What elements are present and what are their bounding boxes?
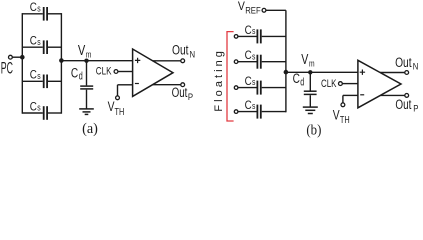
capacitor C_S row2 (b) [234, 50, 286, 69]
capacitor C_S row4 (b) [234, 100, 286, 119]
op-amp comparator U1 (a) [133, 49, 173, 96]
pin - (b) [360, 94, 364, 96]
svg-text:s: s [37, 71, 41, 81]
terminal CLK (b) [321, 78, 358, 90]
svg-text:REF: REF [245, 6, 261, 17]
svg-text:P: P [413, 104, 418, 114]
capacitor C_S row1 (b) [234, 25, 286, 44]
svg-text:TH: TH [340, 115, 350, 126]
svg-text:(b): (b) [306, 122, 321, 138]
svg-text:Out: Out [395, 55, 412, 70]
terminal V_REF [238, 0, 286, 17]
svg-text:P: P [188, 92, 193, 102]
svg-text:N: N [413, 62, 419, 72]
terminal V_TH (b) [333, 95, 358, 126]
terminal Out_P (a) [152, 83, 193, 102]
svg-text:C: C [30, 70, 37, 82]
capacitor C_S row1 (a) [22, 2, 61, 20]
capacitor C_d (b) [293, 71, 317, 107]
svg-text:Out: Out [395, 97, 411, 112]
capacitor C_S row2 (a) [22, 36, 61, 54]
svg-text:C: C [293, 71, 301, 86]
svg-text:C: C [71, 65, 79, 80]
wire V_m to comparator (a) [61, 60, 132, 62]
wire left rail (a) [21, 13, 23, 114]
node V_m (a) [59, 43, 91, 63]
capacitor C_S row3 (a) [22, 70, 61, 88]
svg-text:s: s [37, 37, 41, 47]
svg-text:C: C [30, 101, 37, 113]
terminal PC [1, 55, 23, 77]
svg-text:(a): (a) [82, 121, 98, 137]
svg-text:Out: Out [172, 43, 189, 58]
pin + (a) [135, 58, 140, 63]
svg-text:TH: TH [115, 107, 125, 118]
svg-text:s: s [252, 77, 256, 87]
ground (b) [303, 107, 318, 113]
capacitor C_S row4 (a) [22, 101, 61, 119]
junction PC-left rail [20, 55, 25, 60]
floating bracket (red) [227, 32, 234, 121]
svg-text:Out: Out [172, 85, 188, 100]
capacitor C_S row3 (b) [234, 76, 286, 95]
svg-text:V: V [108, 99, 115, 114]
svg-text:s: s [252, 26, 256, 36]
wire right rail (b) [285, 10, 287, 112]
svg-text:C: C [245, 50, 252, 62]
ground (a) [79, 109, 94, 115]
svg-text:m: m [309, 58, 315, 69]
svg-text:s: s [37, 103, 41, 113]
terminal Out_N (a) [152, 43, 195, 63]
svg-text:d: d [79, 71, 83, 83]
svg-text:CLK: CLK [96, 66, 112, 78]
svg-text:C: C [30, 2, 37, 14]
svg-text:V: V [333, 107, 340, 122]
svg-text:d: d [300, 76, 304, 88]
svg-text:CLK: CLK [321, 78, 337, 90]
svg-text:s: s [252, 51, 256, 61]
junction C_d tap (b) [308, 70, 312, 74]
junction C_d tap (a) [84, 59, 88, 63]
svg-text:N: N [190, 49, 196, 59]
svg-text:V: V [301, 52, 308, 68]
capacitor C_d (a) [71, 61, 93, 109]
svg-text:V: V [238, 0, 245, 13]
wire V_m to comparator (b) [286, 71, 358, 73]
terminal Out_N (b) [380, 55, 418, 74]
svg-text:s: s [252, 101, 256, 111]
svg-text:V: V [78, 43, 86, 59]
wire right rail (a) [60, 13, 62, 114]
terminal CLK (a) [96, 66, 133, 78]
op-amp comparator U2 (b) [358, 60, 401, 108]
svg-text:PC: PC [1, 59, 13, 78]
svg-text:C: C [245, 100, 252, 112]
pin - (a) [135, 83, 139, 85]
svg-text:s: s [37, 3, 41, 13]
svg-text:C: C [30, 36, 37, 48]
pin + (b) [360, 70, 365, 75]
terminal V_TH (a) [108, 85, 133, 118]
svg-text:C: C [245, 25, 252, 37]
svg-text:C: C [245, 76, 252, 88]
node V_m (b) [284, 52, 315, 74]
terminal Out_P (b) [380, 94, 418, 114]
